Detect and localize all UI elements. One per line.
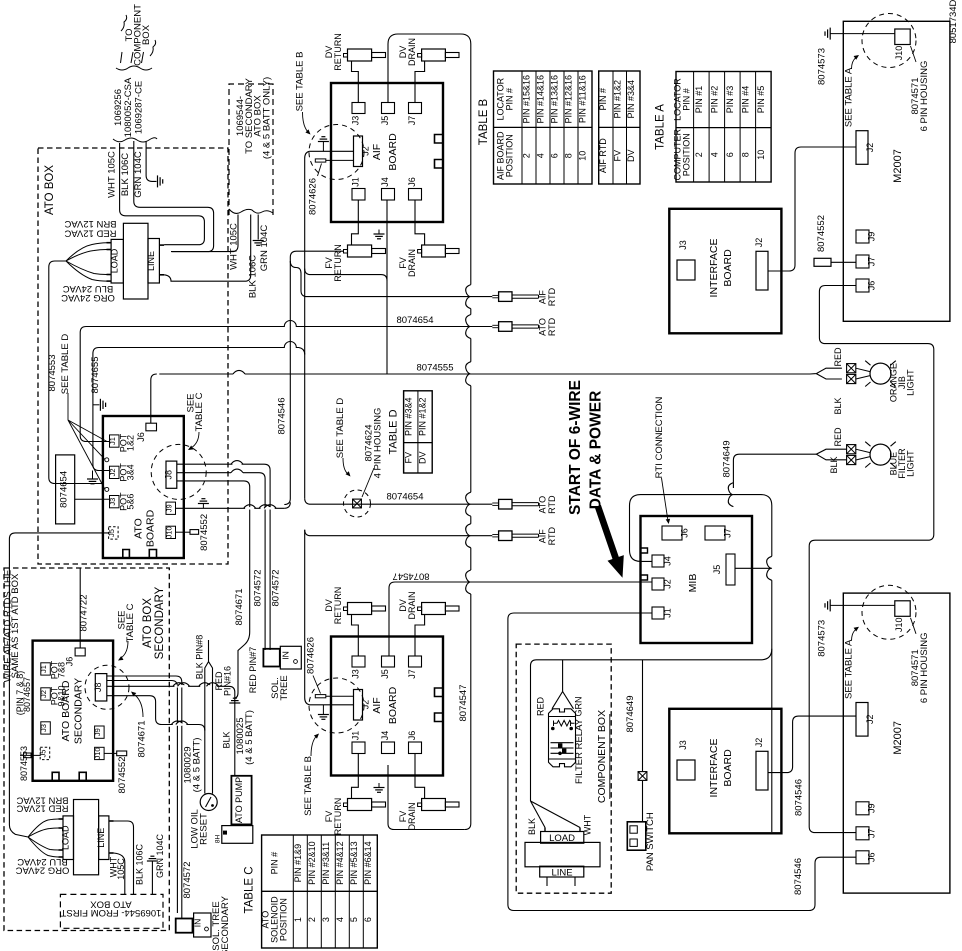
svg-text:ORG 24VAC: ORG 24VAC bbox=[61, 292, 115, 303]
dashed box 1069544- FROM FIRST ATD BOX bbox=[60, 894, 163, 928]
svg-text:PIN #3&4: PIN #3&4 bbox=[403, 397, 413, 436]
svg-text:8074649: 8074649 bbox=[625, 696, 636, 733]
ATO BOARD outline bbox=[103, 416, 184, 558]
svg-text:DV: DV bbox=[626, 149, 636, 162]
U1 connector J5 bbox=[382, 103, 395, 114]
svg-text:8074654: 8074654 bbox=[397, 315, 434, 326]
svg-text:J6: J6 bbox=[867, 281, 877, 291]
SEE TABLE D leaders bbox=[67, 393, 69, 420]
svg-text:J5: J5 bbox=[39, 750, 48, 758]
ground on J9 wire bbox=[202, 504, 204, 509]
svg-text:PIN #2: PIN #2 bbox=[709, 86, 719, 114]
connector ATD RTD upper bbox=[499, 322, 512, 332]
svg-text:RTD: RTD bbox=[547, 317, 557, 336]
U1 FV DRAIN connector bbox=[422, 245, 446, 257]
M2007 A connector J10 bbox=[895, 29, 910, 45]
connector AIF RTD lower bbox=[499, 531, 512, 541]
svg-text:PIN #: PIN # bbox=[269, 852, 279, 875]
U2 FV RETURN connector bbox=[348, 799, 372, 811]
svg-text:8074655: 8074655 bbox=[90, 357, 101, 394]
svg-text:GRN 104C: GRN 104C bbox=[155, 833, 165, 878]
svg-text:AIF: AIF bbox=[371, 144, 383, 160]
svg-text:BLK: BLK bbox=[527, 818, 537, 835]
svg-text:J1: J1 bbox=[108, 437, 117, 445]
hook 8074649 junction bbox=[728, 483, 733, 507]
torn edge of 1069544 box bbox=[229, 209, 273, 213]
bus junction hooks bbox=[466, 285, 471, 309]
svg-text:1: 1 bbox=[293, 917, 303, 922]
transformer T1 LOAD box bbox=[111, 239, 123, 283]
svg-text:GRN: GRN bbox=[574, 697, 584, 717]
svg-text:J2: J2 bbox=[39, 690, 48, 698]
svg-text:SEE TABLE A: SEE TABLE A bbox=[844, 67, 855, 127]
svg-text:J10: J10 bbox=[93, 747, 102, 759]
hooks on ATD2 wire 4 bbox=[173, 723, 182, 725]
T2 GRN ground wire bbox=[147, 860, 158, 862]
transformer T2 LINE box bbox=[99, 816, 109, 860]
U1 DV RETURN connector bbox=[348, 49, 372, 61]
svg-text:ORG 24VAC: ORG 24VAC bbox=[16, 864, 70, 875]
wire U1 J4 down to 8074555 bbox=[386, 200, 388, 374]
INTERFACE BOARD B connector J3 bbox=[677, 760, 695, 780]
ground tap on 8074655 vertical bbox=[93, 404, 100, 406]
svg-text:INTERFACE: INTERFACE bbox=[708, 739, 720, 798]
svg-text:RED: RED bbox=[536, 697, 546, 717]
T1 load pins bbox=[107, 242, 112, 244]
svg-text:8074547: 8074547 bbox=[458, 685, 469, 722]
MIB connector J2 bbox=[652, 578, 664, 590]
transformer T2 LOAD box bbox=[63, 816, 74, 860]
X connector on pan switch wire bbox=[638, 772, 647, 781]
COMPONENT BOX dashed enclosure bbox=[516, 644, 611, 893]
U2 8074626 leader bbox=[313, 676, 321, 694]
svg-text:RTI CONNECTION: RTI CONNECTION bbox=[654, 397, 665, 479]
svg-text:8074573: 8074573 bbox=[817, 620, 828, 657]
wire 8074553 from T1 to ATO BOARD bbox=[49, 261, 103, 484]
svg-text:DRAIN: DRAIN bbox=[407, 802, 417, 830]
INTERFACE BOARD B outline bbox=[669, 709, 781, 834]
MIB connector J5 bbox=[726, 554, 735, 585]
ATD2 connector J3 bbox=[41, 722, 51, 734]
T2 WHT wire to 1069544 box bbox=[114, 821, 134, 894]
svg-text:FILTER RELAY: FILTER RELAY bbox=[574, 718, 585, 784]
ATD PUMP box bbox=[231, 776, 251, 825]
svg-text:RED: RED bbox=[833, 427, 843, 447]
svg-text:TREE: TREE bbox=[279, 675, 290, 700]
wire ATD1 J6 to 8074555 bbox=[151, 374, 157, 423]
wire 8074649 to MIB J4 bbox=[733, 454, 816, 488]
svg-text:8074547: 8074547 bbox=[393, 571, 430, 582]
svg-text:WHT 105C: WHT 105C bbox=[229, 223, 240, 270]
component transformer LINE box bbox=[540, 866, 584, 877]
svg-text:105C: 105C bbox=[116, 858, 126, 880]
svg-text:8: 8 bbox=[740, 152, 750, 157]
SEE TABLE C leader ATD2 bbox=[121, 641, 128, 658]
svg-text:LIGHT: LIGHT bbox=[906, 369, 916, 396]
svg-text:J7: J7 bbox=[867, 829, 877, 839]
svg-text:PIN #1&9: PIN #1&9 bbox=[293, 844, 303, 883]
svg-text:PIN #1&2: PIN #1&2 bbox=[418, 397, 428, 436]
wire 8074547 horizontal to MIB J2 bbox=[389, 582, 652, 656]
svg-text:RED 12VAC: RED 12VAC bbox=[64, 227, 116, 238]
orange light fork bbox=[810, 368, 842, 374]
U2 J2 board wire bbox=[309, 704, 353, 706]
svg-text:J7: J7 bbox=[407, 116, 417, 126]
svg-text:DRAIN: DRAIN bbox=[407, 249, 417, 277]
U1 SEE TABLE B leader bbox=[303, 112, 309, 132]
svg-text:8074546: 8074546 bbox=[793, 858, 804, 895]
svg-text:8074555: 8074555 bbox=[417, 363, 454, 374]
svg-text:BOARD: BOARD bbox=[145, 509, 157, 547]
svg-text:8074552: 8074552 bbox=[117, 757, 128, 794]
svg-text:IN: IN bbox=[281, 651, 291, 660]
FILTER RELAY coil resistor bbox=[554, 720, 575, 726]
svg-text:WHT 105C: WHT 105C bbox=[107, 151, 118, 198]
ATD1 connector J2 bbox=[110, 466, 120, 478]
svg-text:J2: J2 bbox=[754, 738, 764, 748]
M2007 B dashed circle at J10 bbox=[862, 585, 916, 639]
ATD1 connector J3 bbox=[110, 496, 120, 508]
svg-text:J10: J10 bbox=[164, 526, 173, 538]
svg-text:J6: J6 bbox=[136, 432, 146, 442]
svg-text:GRN 104C: GRN 104C bbox=[133, 151, 144, 198]
svg-text:POSITION: POSITION bbox=[504, 134, 514, 177]
U1 connector J7 bbox=[409, 103, 422, 114]
ATD2 J8 wire 2 to sol tree secondary IN bbox=[107, 681, 178, 914]
start of 6-wire arrow bbox=[595, 505, 624, 578]
svg-text:8074626: 8074626 bbox=[308, 178, 319, 215]
U2 J2 pin 8074626 connector bbox=[315, 695, 326, 698]
svg-text:BLK 106C: BLK 106C bbox=[120, 153, 131, 196]
svg-text:PIN #12&16: PIN #12&16 bbox=[564, 75, 574, 124]
wire from 8074654 box to J3 bbox=[75, 498, 110, 500]
ATD2 connector J1 bbox=[41, 663, 51, 675]
svg-text:J4: J4 bbox=[663, 556, 673, 566]
svg-text:TABLE B: TABLE B bbox=[478, 98, 490, 145]
M2007 B connector J7 bbox=[856, 827, 869, 840]
ATD2 J8 wire 1 to sol tree secondary bbox=[107, 676, 182, 919]
U2 FV RETURN wire to J1 bbox=[352, 754, 359, 799]
svg-text:TABLE D: TABLE D bbox=[388, 409, 400, 454]
svg-text:J3: J3 bbox=[39, 724, 48, 732]
FILTER RELAY contacts bbox=[551, 742, 574, 744]
U1 board notch upper bbox=[435, 135, 444, 144]
ATD2 connector J8 bbox=[95, 674, 107, 701]
M2007 B ground wire to J10 bbox=[830, 604, 895, 606]
board2 bottom notch 1 bbox=[52, 772, 59, 781]
svg-text:BOARD: BOARD bbox=[387, 133, 399, 171]
svg-text:J6: J6 bbox=[407, 731, 417, 741]
BLK PIN#8 fan wire bbox=[208, 640, 210, 662]
U2 board notch upper bbox=[435, 688, 444, 697]
T2 BLK wire to 1069544 box bbox=[114, 853, 125, 894]
U1 connector J6 bbox=[409, 189, 422, 201]
8074624 leader bbox=[362, 468, 374, 497]
svg-text:SEE TABLE D: SEE TABLE D bbox=[60, 334, 71, 395]
svg-text:RETURN: RETURN bbox=[333, 33, 343, 71]
svg-text:8074626: 8074626 bbox=[305, 637, 316, 674]
SOL TREE IN box bbox=[280, 646, 301, 669]
relay coil fork wire bbox=[552, 660, 563, 709]
svg-text:6 PIN HOUSING: 6 PIN HOUSING bbox=[919, 61, 930, 132]
M2007 B connector J2 bbox=[856, 703, 868, 737]
U2 connector J7 bbox=[409, 656, 422, 667]
svg-text:J7: J7 bbox=[407, 669, 417, 679]
svg-text:J2: J2 bbox=[108, 468, 117, 476]
ATD1 connector J6 bbox=[146, 423, 157, 431]
svg-text:J1: J1 bbox=[39, 665, 48, 673]
svg-text:8074649: 8074649 bbox=[722, 441, 733, 478]
svg-text:J3: J3 bbox=[678, 240, 688, 250]
ATD1 connector J9 bbox=[166, 502, 176, 514]
SEE TABLE A leader A bbox=[852, 58, 857, 70]
ATD1 connector J5 bbox=[109, 527, 119, 539]
svg-text:8074654: 8074654 bbox=[387, 492, 424, 503]
AIF BOARD U1 outline bbox=[331, 83, 443, 222]
INTERFACE BOARD A outline bbox=[669, 209, 781, 333]
ATD2 connector J5 bbox=[40, 747, 50, 759]
svg-text:PIN #3&11: PIN #3&11 bbox=[321, 842, 331, 885]
cable squiggle bottom bbox=[113, 138, 157, 142]
svg-text:SECONDARY: SECONDARY bbox=[220, 895, 231, 951]
T1 line pins bbox=[159, 244, 164, 246]
svg-text:LIGHT: LIGHT bbox=[906, 450, 916, 477]
U2 connector J1 bbox=[352, 742, 365, 754]
U2 board notch lower bbox=[435, 713, 444, 722]
svg-text:BLK PIN#8: BLK PIN#8 bbox=[195, 635, 205, 680]
ATD1 J8 wire 1 8074572 bbox=[177, 463, 243, 465]
svg-text:J7: J7 bbox=[723, 528, 733, 538]
U2 ground near FV bbox=[378, 783, 380, 788]
svg-text:8H: 8H bbox=[215, 835, 222, 844]
svg-text:PIN #6&14: PIN #6&14 bbox=[363, 841, 373, 885]
ground for GRN 104C bbox=[157, 175, 159, 187]
svg-text:PIN #15&16: PIN #15&16 bbox=[522, 75, 532, 124]
svg-text:4: 4 bbox=[536, 153, 546, 158]
svg-text:J1: J1 bbox=[351, 177, 361, 187]
svg-text:8051734D: 8051734D bbox=[948, 0, 959, 43]
svg-text:SEE TABLE D: SEE TABLE D bbox=[335, 398, 346, 459]
svg-text:LINE: LINE bbox=[146, 251, 156, 271]
M2007 A connector J7 bbox=[856, 255, 869, 268]
ATD2 connector J2 bbox=[41, 688, 51, 700]
svg-text:PIN #3: PIN #3 bbox=[725, 86, 735, 114]
TABLE B AIF RTD sub-table bbox=[599, 71, 640, 184]
svg-text:SEE TABLE B: SEE TABLE B bbox=[303, 756, 314, 816]
svg-text:8074546: 8074546 bbox=[794, 779, 805, 816]
svg-text:BLK: BLK bbox=[833, 397, 843, 414]
ATO BOARD bottom notch 2 bbox=[149, 550, 156, 559]
ground on GRN secondary bbox=[253, 240, 264, 242]
SEE TABLE D center leader bbox=[343, 458, 348, 474]
transformer T1 LINE box bbox=[148, 239, 159, 284]
svg-text:(4 & 5 BATT ONLY): (4 & 5 BATT ONLY) bbox=[261, 77, 272, 159]
dashed circle around 4-pin housing bbox=[344, 490, 371, 517]
wires to LOAD BLK WHT bbox=[531, 801, 546, 828]
svg-text:J9: J9 bbox=[867, 232, 877, 242]
U1 J2 board wire bbox=[309, 150, 353, 152]
U1 FV RETURN connector bbox=[348, 245, 372, 257]
svg-text:8074654: 8074654 bbox=[59, 471, 70, 508]
wire ATD RTD upper 8074654 bbox=[80, 321, 492, 442]
ATD2 connector J6 bbox=[75, 648, 85, 656]
U2 connector J3 bbox=[352, 656, 365, 667]
wire BLK 106C vertical bbox=[134, 141, 214, 252]
U1 FV RETURN wire to J1 bbox=[352, 200, 359, 245]
pin circle at J2 bbox=[105, 458, 109, 462]
svg-text:AIF: AIF bbox=[371, 697, 383, 713]
U2 connector J5 bbox=[382, 656, 395, 667]
svg-text:PAN SWITCH: PAN SWITCH bbox=[645, 812, 656, 871]
svg-text:BOARD: BOARD bbox=[387, 686, 399, 724]
tee arc to FV horizontal bbox=[305, 269, 387, 281]
ATO BOARD bottom notch 1 bbox=[123, 550, 130, 559]
svg-text:2: 2 bbox=[522, 153, 532, 158]
svg-text:BOX: BOX bbox=[141, 24, 152, 45]
SOL TREE SECONDARY IN box bbox=[194, 913, 211, 937]
U2 connector J4 bbox=[382, 742, 395, 754]
U2 FV DRAIN connector bbox=[422, 799, 446, 811]
svg-text:4 PIN HOUSING: 4 PIN HOUSING bbox=[373, 408, 384, 479]
svg-text:2: 2 bbox=[307, 917, 317, 922]
svg-text:DV: DV bbox=[418, 452, 428, 465]
svg-text:2: 2 bbox=[694, 152, 704, 157]
ATD1 connector J1 bbox=[110, 435, 120, 447]
wire U2 J2 vertical to AIF RTD lower bbox=[305, 530, 310, 705]
svg-text:PIN #11&16: PIN #11&16 bbox=[578, 75, 588, 123]
wire right bus corner to component box bbox=[531, 649, 772, 801]
RTI CONNECTION leader arrow bbox=[662, 478, 669, 521]
svg-text:5: 5 bbox=[349, 917, 359, 922]
ATD2 J8 wire 3 BLK PIN#8 to pump ground bbox=[107, 686, 235, 776]
svg-text:8074553: 8074553 bbox=[19, 746, 29, 781]
wire BLK 106C to secondary bbox=[164, 215, 251, 282]
wire 8074722 from ATD2 J6 bbox=[79, 568, 81, 648]
svg-text:J2: J2 bbox=[663, 579, 673, 589]
connector 8074552 at M2007 A J7 bbox=[814, 258, 831, 266]
U1 DV DRAIN wire to J7 bbox=[415, 61, 425, 103]
MIB connector J6 bbox=[662, 526, 682, 540]
ATD2 J8 dashed circle bbox=[85, 665, 129, 709]
U1 connector J4 bbox=[382, 189, 395, 201]
svg-text:ATO PUMP: ATO PUMP bbox=[234, 777, 244, 823]
svg-text:8074671: 8074671 bbox=[137, 721, 148, 758]
svg-text:POSITION: POSITION bbox=[278, 898, 288, 941]
svg-text:RESET: RESET bbox=[199, 813, 210, 845]
M2007 B connector J6 bbox=[856, 851, 869, 864]
U1 dashed circle around J2 bbox=[309, 125, 364, 180]
SOL TREE box bbox=[263, 649, 279, 667]
M2007 B ground bbox=[829, 599, 831, 611]
svg-text:RED: RED bbox=[833, 347, 843, 367]
ATD1 J5 wire to left edge bbox=[9, 533, 108, 837]
svg-text:PIN #: PIN # bbox=[598, 88, 608, 111]
ATD1 J8 wire 2 8074572 bbox=[177, 472, 231, 474]
SOL TREE SECONDARY box bbox=[176, 919, 193, 933]
svg-text:J6: J6 bbox=[65, 657, 75, 667]
svg-text:6: 6 bbox=[550, 153, 560, 158]
svg-text:MIB: MIB bbox=[687, 574, 699, 593]
svg-text:AIF RTD: AIF RTD bbox=[598, 138, 608, 173]
svg-text:PIN #5: PIN #5 bbox=[756, 86, 766, 114]
svg-text:ATO BOX: ATO BOX bbox=[142, 598, 154, 648]
svg-text:SEE TABLE A: SEE TABLE A bbox=[844, 639, 855, 699]
wire GRN 104C to ground bbox=[146, 141, 156, 181]
svg-text:PIN #13&16: PIN #13&16 bbox=[550, 75, 560, 124]
ORANGE JIB LIGHT bulb bbox=[870, 363, 891, 384]
INTERFACE BOARD A connector J2 bbox=[756, 251, 768, 290]
svg-text:ATO BOX: ATO BOX bbox=[44, 165, 56, 215]
transformer T1 body bbox=[123, 223, 148, 299]
wire interface A J2 to M2007 A J2 bbox=[768, 147, 856, 271]
cable squiggle top bbox=[116, 66, 152, 70]
svg-text:TABLE C: TABLE C bbox=[194, 392, 205, 431]
svg-text:J5: J5 bbox=[380, 116, 390, 126]
ground tap on 8074655 at ATD J2 bbox=[92, 471, 94, 479]
svg-text:(4 & 5 BATT): (4 & 5 BATT) bbox=[191, 738, 202, 793]
svg-text:BLK 106C: BLK 106C bbox=[248, 255, 259, 298]
U1 DV DRAIN connector bbox=[422, 49, 446, 61]
callout box 8074654 bbox=[56, 455, 75, 524]
M2007 B connector J9 bbox=[856, 802, 869, 815]
svg-text:J2: J2 bbox=[361, 700, 371, 710]
MIB connector J4 bbox=[652, 555, 664, 567]
MIB border notch 1 bbox=[641, 548, 648, 553]
svg-text:8074552: 8074552 bbox=[199, 514, 210, 551]
U1 ground near FV bbox=[378, 230, 380, 235]
svg-text:J8: J8 bbox=[164, 470, 174, 480]
svg-text:RETURN: RETURN bbox=[333, 798, 343, 836]
svg-text:1&2: 1&2 bbox=[126, 435, 136, 451]
wire main bus from U1 J5 down right side bbox=[388, 34, 471, 830]
svg-text:6 PIN HOUSING: 6 PIN HOUSING bbox=[919, 632, 930, 703]
M2007 A ground bbox=[829, 28, 831, 40]
U1 FV DRAIN wire to J6 bbox=[415, 200, 425, 245]
svg-text:J10: J10 bbox=[894, 46, 904, 61]
TABLE A main bbox=[676, 72, 771, 183]
svg-text:J5: J5 bbox=[380, 669, 390, 679]
svg-text:J1: J1 bbox=[351, 731, 361, 741]
8074571 leader A bbox=[911, 46, 917, 62]
hooks on ATD2 wire 3 bbox=[174, 685, 183, 687]
svg-text:J10: J10 bbox=[894, 618, 904, 633]
ground above ATD pump wire bbox=[229, 702, 240, 704]
U1 board notch lower bbox=[435, 160, 444, 169]
svg-text:BLK 106C: BLK 106C bbox=[135, 843, 145, 885]
svg-text:5&6: 5&6 bbox=[126, 494, 136, 510]
svg-text:J4: J4 bbox=[380, 177, 390, 187]
TABLE D main bbox=[404, 391, 433, 473]
svg-text:LINE: LINE bbox=[96, 828, 106, 848]
svg-text:J2: J2 bbox=[865, 143, 875, 153]
transformer T2 body bbox=[74, 800, 99, 875]
ORANGE JIB LIGHT X connectors bbox=[847, 364, 856, 373]
component transformer load pins bbox=[544, 828, 546, 832]
svg-text:J6: J6 bbox=[407, 177, 417, 187]
T2 fan wires bbox=[28, 819, 58, 837]
svg-text:J3: J3 bbox=[351, 669, 361, 679]
ATD1 J9 wire bbox=[176, 507, 285, 509]
hook at MIB J5 junction bbox=[767, 556, 772, 580]
svg-text:(4 & 5 BATT): (4 & 5 BATT) bbox=[244, 710, 255, 765]
svg-text:SAME AS 1ST ATD BOX: SAME AS 1ST ATD BOX bbox=[10, 573, 21, 678]
SEE TABLE C leader ATD1 bbox=[191, 432, 199, 448]
BLUE FILTER LIGHT X connectors bbox=[847, 445, 856, 454]
svg-text:PIN #1&2: PIN #1&2 bbox=[612, 80, 622, 119]
M2007 A ground wire to J10 bbox=[830, 33, 895, 35]
svg-text:8074572: 8074572 bbox=[253, 570, 264, 607]
svg-text:PIN #: PIN # bbox=[681, 88, 691, 111]
